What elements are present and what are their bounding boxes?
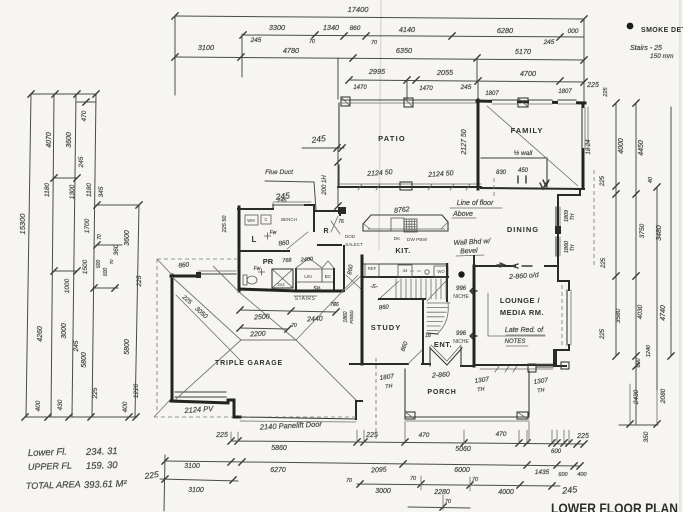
right dim chain dashed <box>593 170 595 266</box>
family opening arrow <box>540 183 546 189</box>
svg-text:234. 31: 234. 31 <box>85 446 118 458</box>
svg-text:15300: 15300 <box>18 213 27 235</box>
svg-text:UPPER FL: UPPER FL <box>28 460 72 472</box>
smoke detector legend <box>627 23 634 30</box>
svg-text:SALECT: SALECT <box>345 242 363 247</box>
svg-text:1470: 1470 <box>353 85 367 91</box>
svg-text:FIXED: FIXED <box>349 310 354 324</box>
porch rail <box>495 366 499 372</box>
study walls <box>379 298 425 300</box>
svg-text:REF: REF <box>368 266 377 271</box>
svg-text:5½: 5½ <box>314 285 322 292</box>
laundry walls <box>238 207 241 291</box>
svg-text:L: L <box>252 235 257 244</box>
svg-text:150 mm: 150 mm <box>650 53 674 60</box>
garage door <box>240 417 356 419</box>
family half wall <box>481 157 547 159</box>
svg-text:DOD: DOD <box>345 234 356 239</box>
svg-text:Fw: Fw <box>254 266 261 272</box>
right dim chain 1 <box>615 103 617 356</box>
svg-text:2200: 2200 <box>249 330 266 338</box>
svg-text:1220: 1220 <box>133 383 140 398</box>
svg-text:4700: 4700 <box>520 69 536 78</box>
stair treads upper <box>395 279 397 299</box>
svg-text:TH: TH <box>477 387 485 394</box>
svg-text:TH: TH <box>385 384 393 391</box>
kitchen counter row <box>364 263 448 265</box>
svg-text:17400: 17400 <box>348 5 370 14</box>
paper crease <box>379 0 381 250</box>
study garage wall <box>361 256 364 364</box>
garage roof diagonals <box>172 277 241 340</box>
right dim chain 2 <box>635 103 637 424</box>
svg-text:3600: 3600 <box>124 230 131 246</box>
svg-text:245: 245 <box>78 156 85 168</box>
svg-text:500: 500 <box>103 268 109 277</box>
svg-text:1500: 1500 <box>82 259 89 274</box>
garage inner dims <box>240 310 336 312</box>
lounge east window <box>566 290 568 345</box>
svg-text:-S-: -S- <box>370 284 378 290</box>
svg-text:225: 225 <box>365 432 378 439</box>
svg-text:Stairs - 25: Stairs - 25 <box>630 45 662 52</box>
svg-text:1240: 1240 <box>646 344 652 357</box>
svg-text:70: 70 <box>410 476 417 482</box>
svg-text:44: 44 <box>402 268 408 273</box>
lounge west wall <box>473 266 476 366</box>
svg-text:245: 245 <box>73 340 80 352</box>
svg-text:1807: 1807 <box>485 91 499 97</box>
ent east wall <box>473 256 475 266</box>
svg-text:245: 245 <box>250 37 262 44</box>
svg-text:STUDY: STUDY <box>371 323 401 332</box>
svg-text:600: 600 <box>558 472 568 478</box>
svg-text:768: 768 <box>282 258 293 265</box>
svg-text:6350: 6350 <box>396 46 412 55</box>
svg-text:TH: TH <box>570 244 576 251</box>
svg-text:2095: 2095 <box>370 466 387 474</box>
svg-text:SMOKE DET: SMOKE DET <box>641 27 683 34</box>
svg-text:3750: 3750 <box>639 223 646 238</box>
svg-text:70: 70 <box>346 478 353 484</box>
svg-text:70: 70 <box>97 234 103 240</box>
svg-text:3600: 3600 <box>66 132 73 148</box>
right dim chain 4 <box>670 107 672 356</box>
svg-text:70: 70 <box>371 40 378 46</box>
R door swing <box>331 216 338 232</box>
svg-text:225: 225 <box>586 82 599 89</box>
svg-text:DINING: DINING <box>507 225 539 234</box>
svg-text:NICHE: NICHE <box>453 294 469 300</box>
lounge east wall <box>558 256 569 290</box>
lounge bottom wall <box>474 364 556 366</box>
bottom dim row B <box>165 461 580 466</box>
porch slab <box>405 369 529 417</box>
patio left edge <box>338 103 340 148</box>
top dimension line row2 <box>243 35 584 37</box>
svg-text:4740: 4740 <box>660 305 667 321</box>
svg-text:400: 400 <box>35 400 42 411</box>
svg-text:2055: 2055 <box>436 68 454 77</box>
svg-text:500: 500 <box>96 260 102 269</box>
svg-text:76: 76 <box>330 302 336 308</box>
svg-text:2500: 2500 <box>253 313 270 321</box>
bottom right block <box>619 424 658 426</box>
svg-text:2-860: 2-860 <box>431 371 450 379</box>
svg-text:2127 50: 2127 50 <box>461 129 468 155</box>
svg-text:DK: DK <box>394 236 401 242</box>
bottom left extension <box>164 455 165 511</box>
svg-text:860: 860 <box>379 304 390 311</box>
family room walls <box>477 100 480 189</box>
svg-text:Fw: Fw <box>270 230 277 236</box>
svg-text:2400: 2400 <box>300 256 315 263</box>
stair lower winders <box>427 302 450 304</box>
svg-text:Late Red. of: Late Red. of <box>505 327 544 334</box>
svg-text:WM: WM <box>247 218 255 223</box>
svg-text:996: 996 <box>456 286 467 292</box>
svg-text:FAMILY: FAMILY <box>511 126 544 135</box>
patio bottom wall <box>338 186 481 188</box>
svg-text:225: 225 <box>576 433 589 440</box>
svg-text:70: 70 <box>109 259 114 265</box>
svg-text:Flue Duct: Flue Duct <box>265 169 294 176</box>
svg-text:KIT.: KIT. <box>395 246 410 255</box>
svg-text:225: 225 <box>601 257 607 269</box>
svg-text:76: 76 <box>338 219 344 225</box>
svg-text:200 1H: 200 1H <box>322 175 328 196</box>
laundry bottom wall <box>239 250 289 252</box>
svg-text:LIN: LIN <box>304 274 312 280</box>
svg-text:NOTES: NOTES <box>505 339 526 345</box>
hall closets <box>295 269 297 291</box>
dining windows <box>555 207 557 226</box>
svg-text:5800: 5800 <box>81 352 88 368</box>
svg-text:1300: 1300 <box>69 184 76 199</box>
R room <box>314 210 341 212</box>
svg-text:4780: 4780 <box>283 46 299 55</box>
family top windows <box>492 99 517 105</box>
svg-text:3000: 3000 <box>61 323 68 339</box>
svg-text:600: 600 <box>551 449 562 455</box>
svg-text:3000: 3000 <box>375 488 391 495</box>
svg-text:000: 000 <box>568 28 579 35</box>
laundry fixtures <box>245 215 258 225</box>
svg-text:TH: TH <box>570 213 576 220</box>
svg-text:6000: 6000 <box>454 467 470 474</box>
svg-text:225: 225 <box>92 387 99 399</box>
kitchen island bench <box>363 215 448 231</box>
svg-text:860: 860 <box>178 261 190 269</box>
stair well right wall <box>446 264 448 301</box>
svg-text:860: 860 <box>350 25 361 32</box>
PR bottom wall <box>239 289 296 291</box>
svg-text:Lower Fl.: Lower Fl. <box>28 447 67 459</box>
svg-text:PORCH: PORCH <box>427 389 456 396</box>
svg-text:5170: 5170 <box>515 47 531 56</box>
svg-text:3100: 3100 <box>188 487 204 494</box>
svg-text:245: 245 <box>543 39 555 46</box>
svg-text:2995: 2995 <box>368 67 386 76</box>
top dimension line 17400 <box>175 16 584 19</box>
svg-text:225: 225 <box>215 432 228 439</box>
garage SE step <box>228 400 240 417</box>
svg-text:Bevel: Bevel <box>460 248 478 256</box>
svg-text:470: 470 <box>81 110 88 121</box>
svg-text:70: 70 <box>445 499 452 505</box>
svg-text:1180: 1180 <box>44 183 51 197</box>
left dimension block verticals <box>26 94 31 417</box>
svg-text:245: 245 <box>310 133 327 145</box>
svg-text:360: 360 <box>113 244 120 255</box>
right dim chain 3 <box>656 187 658 390</box>
svg-text:2280: 2280 <box>433 489 450 496</box>
svg-text:2x2: 2x2 <box>277 282 285 287</box>
svg-text:5800: 5800 <box>124 339 131 355</box>
svg-text:5060: 5060 <box>455 446 471 453</box>
svg-text:245: 245 <box>460 84 472 91</box>
svg-text:430: 430 <box>57 399 64 410</box>
svg-text:40: 40 <box>648 176 654 183</box>
closet fold doors <box>296 258 322 268</box>
svg-text:393.61 M²: 393.61 M² <box>84 478 128 491</box>
dining east wall upper <box>558 189 580 281</box>
stair rails <box>378 281 399 300</box>
svg-text:LOWER FLOOR PLAN: LOWER FLOOR PLAN <box>551 500 678 512</box>
shower <box>272 269 293 288</box>
svg-text:860: 860 <box>278 239 290 247</box>
svg-text:225 50: 225 50 <box>222 215 228 234</box>
svg-text:1700: 1700 <box>84 218 91 233</box>
svg-text:600: 600 <box>636 357 642 367</box>
svg-text:DW PBW: DW PBW <box>407 237 428 243</box>
svg-text:TH: TH <box>537 388 545 395</box>
svg-text:3480: 3480 <box>656 225 663 241</box>
patio left dim <box>337 148 339 206</box>
svg-text:4000: 4000 <box>618 138 625 154</box>
garage top window <box>198 273 236 275</box>
porch SE corner wall <box>554 350 566 366</box>
svg-text:R: R <box>323 228 328 235</box>
svg-text:70: 70 <box>291 323 297 329</box>
svg-text:PR: PR <box>263 257 274 266</box>
svg-text:450: 450 <box>518 168 529 174</box>
svg-text:LOUNGE /: LOUNGE / <box>500 296 541 305</box>
svg-text:830: 830 <box>496 170 507 176</box>
svg-text:4140: 4140 <box>399 25 415 34</box>
svg-text:159. 30: 159. 30 <box>86 460 119 472</box>
left dimension block connectors <box>31 93 96 95</box>
svg-text:Above: Above <box>452 211 473 218</box>
svg-text:6270: 6270 <box>270 467 286 474</box>
garage diagonal dim 3050 <box>176 295 240 360</box>
svg-text:70: 70 <box>309 39 316 45</box>
top dimension line row3 <box>175 57 584 60</box>
svg-text:5860: 5860 <box>271 445 287 452</box>
svg-text:NICHE: NICHE <box>453 339 469 345</box>
kitchen sink hatch <box>391 218 404 231</box>
svg-text:225: 225 <box>136 275 143 287</box>
svg-text:½ wall: ½ wall <box>514 149 533 157</box>
svg-text:1470: 1470 <box>419 86 433 92</box>
svg-text:350: 350 <box>643 431 650 442</box>
svg-text:225: 225 <box>600 328 606 340</box>
family diagonal <box>487 106 578 186</box>
garage eave dashed <box>156 259 158 414</box>
patio top edge <box>342 99 478 101</box>
svg-text:2080: 2080 <box>660 388 667 404</box>
family right window <box>580 108 586 148</box>
study bottom wall and door <box>362 363 408 365</box>
garage SE corner walls <box>350 363 362 365</box>
svg-text:PATIO: PATIO <box>378 134 406 143</box>
svg-text:225: 225 <box>600 175 606 187</box>
svg-text:70: 70 <box>472 477 479 483</box>
svg-text:400: 400 <box>122 401 129 412</box>
svg-text:STAIRS: STAIRS <box>295 296 316 302</box>
svg-text:1000: 1000 <box>64 278 71 293</box>
svg-text:Line of floor: Line of floor <box>457 200 494 207</box>
svg-text:4070: 4070 <box>46 132 53 148</box>
svg-text:BC: BC <box>325 274 332 280</box>
svg-text:BENCH: BENCH <box>281 217 297 222</box>
bottom dim row A <box>231 441 584 444</box>
svg-text:6280: 6280 <box>497 26 513 35</box>
svg-text:245: 245 <box>276 198 287 204</box>
svg-text:TOTAL AREA: TOTAL AREA <box>26 479 81 491</box>
svg-text:ENT.: ENT. <box>434 340 452 349</box>
top dimension line row4 <box>349 80 584 82</box>
entry door V <box>430 348 462 365</box>
bottom dim row D <box>408 507 470 508</box>
svg-text:TRIPLE GARAGE: TRIPLE GARAGE <box>215 360 283 367</box>
svg-text:225: 225 <box>603 86 609 97</box>
PR toilet <box>243 275 247 285</box>
svg-text:1435: 1435 <box>535 469 550 476</box>
svg-text:225: 225 <box>143 469 160 481</box>
svg-text:3100: 3100 <box>184 463 200 470</box>
svg-text:245: 245 <box>561 484 579 496</box>
patio posts <box>341 97 350 106</box>
smoke detector dot on plan <box>458 271 464 277</box>
svg-text:WO: WO <box>437 269 445 274</box>
lounge niche recess <box>487 293 489 336</box>
svg-text:4260: 4260 <box>37 326 44 342</box>
svg-text:1807: 1807 <box>558 89 572 95</box>
svg-text:3100: 3100 <box>198 43 214 52</box>
svg-text:400: 400 <box>577 472 587 478</box>
svg-text:470: 470 <box>496 431 507 438</box>
svg-text:4030: 4030 <box>637 304 644 319</box>
lounge top wall <box>474 265 515 267</box>
svg-text:C: C <box>264 217 267 222</box>
laundry door swing <box>287 232 308 249</box>
svg-text:3580: 3580 <box>615 308 622 323</box>
garage walls <box>171 275 174 401</box>
garage bottom wall <box>171 401 228 403</box>
svg-text:4450: 4450 <box>638 140 645 156</box>
hall east wall <box>343 246 345 291</box>
svg-text:MEDIA RM.: MEDIA RM. <box>500 308 544 317</box>
svg-text:3300: 3300 <box>269 23 285 32</box>
patio corner post <box>338 207 346 214</box>
svg-text:18 24: 18 24 <box>586 139 592 155</box>
svg-text:18: 18 <box>425 333 431 339</box>
svg-text:345: 345 <box>98 186 105 197</box>
svg-text:996: 996 <box>456 331 467 337</box>
svg-text:4000: 4000 <box>498 489 514 496</box>
svg-text:1180: 1180 <box>86 183 93 197</box>
svg-text:1340: 1340 <box>323 23 339 32</box>
svg-text:470: 470 <box>419 432 430 439</box>
svg-text:2440: 2440 <box>306 315 323 323</box>
bottom dim row C <box>160 479 238 481</box>
